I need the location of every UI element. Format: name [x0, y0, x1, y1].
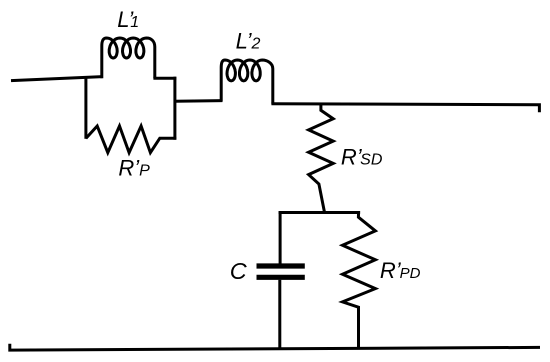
- svg-text:L’1: L’1: [117, 7, 139, 32]
- svg-text:R’P: R’P: [118, 156, 150, 181]
- wire between block and L2: [175, 99, 223, 103]
- inductor L2: [221, 60, 273, 104]
- wire bottom rail with left tick: [10, 344, 540, 350]
- svg-text:C: C: [230, 258, 248, 284]
- resistor RP: [86, 126, 176, 153]
- resistor RSD: [309, 104, 334, 212]
- svg-text:L’2: L’2: [236, 28, 261, 53]
- svg-text:R’PD: R’PD: [380, 258, 421, 283]
- wire L1 right lead: [153, 77, 176, 80]
- wire left post of parallel block: [84, 77, 87, 139]
- wire right post of parallel block: [173, 77, 176, 140]
- wire input lead: [11, 77, 103, 81]
- capacitor C: [257, 211, 305, 349]
- svg-text:R’SD: R’SD: [341, 144, 383, 169]
- inductor L1: [102, 38, 155, 78]
- resistor RPD: [343, 211, 376, 348]
- wire top right with end tick: [271, 104, 539, 113]
- wire top of C/RPD block: [279, 211, 361, 214]
